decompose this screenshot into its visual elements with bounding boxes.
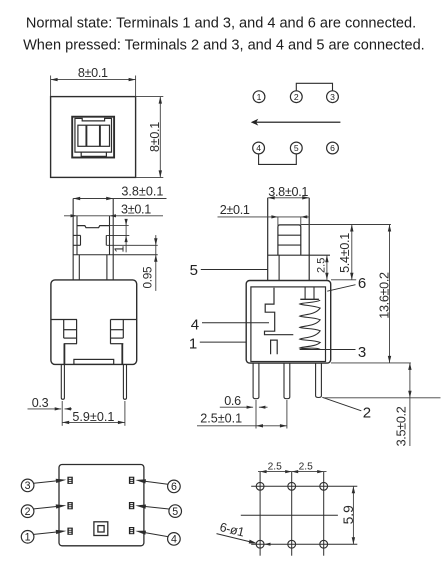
svg-text:2: 2 <box>294 92 299 102</box>
svg-text:5: 5 <box>190 262 198 279</box>
svg-text:6: 6 <box>330 143 335 153</box>
svg-text:2: 2 <box>25 506 31 518</box>
svg-text:0.3: 0.3 <box>32 396 49 410</box>
svg-text:3: 3 <box>25 480 31 492</box>
svg-text:3.8±0.1: 3.8±0.1 <box>268 185 308 199</box>
svg-text:3: 3 <box>358 344 366 361</box>
svg-text:2.5: 2.5 <box>299 462 313 473</box>
svg-text:Normal state: Terminals 1 and: Normal state: Terminals 1 and 3, and 4 a… <box>26 16 416 32</box>
svg-text:8±0.1: 8±0.1 <box>78 66 108 80</box>
svg-text:2.5: 2.5 <box>316 258 328 273</box>
svg-text:3±0.1: 3±0.1 <box>121 202 151 216</box>
svg-text:6: 6 <box>171 481 177 493</box>
svg-text:3: 3 <box>330 92 335 102</box>
svg-text:6: 6 <box>358 275 366 292</box>
svg-text:13.6±0.2: 13.6±0.2 <box>378 272 392 319</box>
svg-text:When pressed: Terminals 2 and: When pressed: Terminals 2 and 3, and 4 a… <box>23 37 425 53</box>
svg-text:1: 1 <box>25 532 31 544</box>
svg-text:5.9±0.1: 5.9±0.1 <box>72 410 114 424</box>
svg-text:2.5±0.1: 2.5±0.1 <box>200 411 242 425</box>
svg-text:2: 2 <box>363 405 371 422</box>
svg-text:5.4±0.1: 5.4±0.1 <box>338 233 352 273</box>
svg-text:5: 5 <box>294 143 299 153</box>
svg-text:3.5±0.2: 3.5±0.2 <box>395 406 409 446</box>
svg-text:0.95: 0.95 <box>141 266 155 288</box>
svg-text:0.6: 0.6 <box>224 394 241 408</box>
svg-text:8±0.1: 8±0.1 <box>148 122 162 152</box>
svg-text:4: 4 <box>171 534 177 546</box>
svg-text:3.8±0.1: 3.8±0.1 <box>121 184 163 198</box>
svg-text:1: 1 <box>189 336 197 353</box>
svg-text:4: 4 <box>191 316 199 333</box>
svg-text:5: 5 <box>172 506 178 518</box>
svg-text:4: 4 <box>256 143 261 153</box>
svg-text:1: 1 <box>257 92 262 102</box>
svg-text:2±0.1: 2±0.1 <box>220 203 250 217</box>
svg-text:2.5: 2.5 <box>268 462 282 473</box>
svg-text:1: 1 <box>113 246 127 253</box>
svg-text:5.9: 5.9 <box>341 505 356 525</box>
